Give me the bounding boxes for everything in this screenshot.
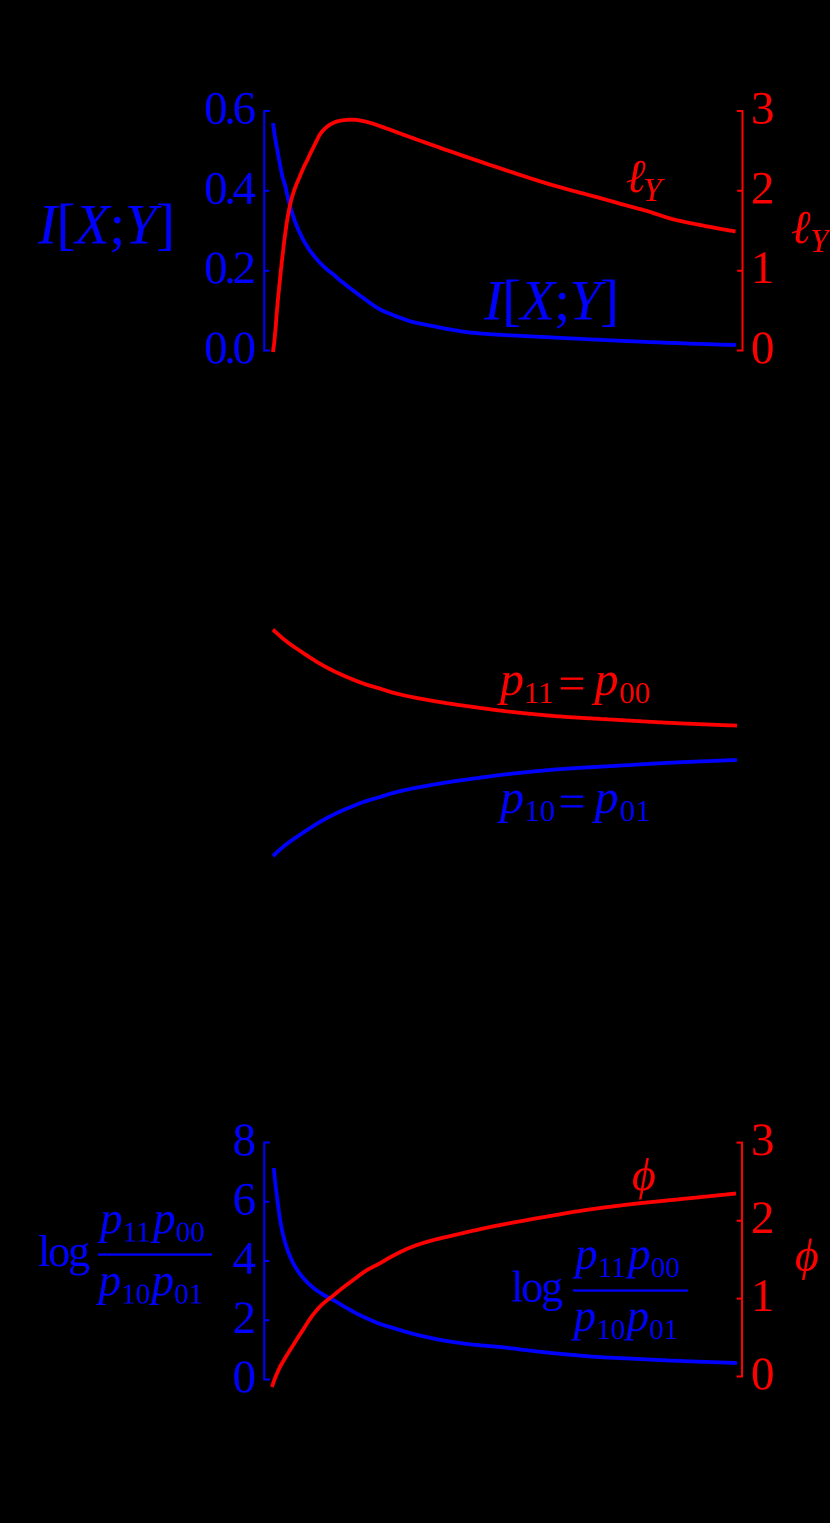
svg-text:11: 11 <box>123 1217 151 1249</box>
chart 1: right axis title l_Y <box>791 202 830 260</box>
svg-text:11: 11 <box>524 675 554 710</box>
chart 1: right y-axis bracket (red) <box>737 111 743 351</box>
svg-text:0.2: 0.2 <box>204 242 256 294</box>
chart 1: left y-axis ticks <box>264 191 269 271</box>
svg-text:Y: Y <box>810 223 830 260</box>
svg-text:01: 01 <box>620 793 651 828</box>
svg-text:ϕ: ϕ <box>795 1230 819 1281</box>
svg-text:p: p <box>97 1194 123 1244</box>
svg-text:I[X;Y]: I[X;Y] <box>483 270 619 333</box>
chart 2: blue curve label p10 = p01 <box>497 771 651 829</box>
chart 3: left y-axis bracket (blue) <box>264 1143 270 1380</box>
chart 1: in-plot label l_Y (red) <box>626 151 665 209</box>
chart 2: red curve p11=p00 <box>273 630 737 726</box>
chart 3: right y-axis bracket (red) <box>737 1143 743 1377</box>
svg-text:0: 0 <box>751 1348 775 1400</box>
svg-text:3: 3 <box>751 1114 775 1166</box>
svg-text:log: log <box>38 1227 90 1276</box>
svg-text:Y: Y <box>643 172 665 209</box>
svg-text:00: 00 <box>620 675 651 710</box>
svg-text:2: 2 <box>751 1192 775 1244</box>
svg-text:01: 01 <box>649 1314 678 1346</box>
svg-text:log: log <box>511 1263 563 1312</box>
svg-text:p: p <box>625 1229 651 1279</box>
svg-text:1: 1 <box>751 242 775 294</box>
svg-text:0.0: 0.0 <box>204 322 256 374</box>
svg-text:1: 1 <box>751 1270 775 1322</box>
chart 2: red curve label p11 = p00 <box>497 653 651 711</box>
svg-text:4: 4 <box>233 1233 257 1285</box>
svg-text:01: 01 <box>174 1279 203 1311</box>
chart 3: left y-axis ticks <box>264 1202 269 1321</box>
svg-text:p: p <box>497 771 524 824</box>
svg-text:0: 0 <box>233 1351 257 1403</box>
chart 3: right y-axis ticks <box>737 1221 742 1299</box>
svg-text:00: 00 <box>651 1252 680 1284</box>
chart 1: right y-axis ticks <box>737 191 742 271</box>
svg-text:p: p <box>150 1194 176 1244</box>
chart 3: left axis title log p11p00/p10p01 (blue fraction) <box>38 1194 212 1311</box>
svg-text:00: 00 <box>176 1217 205 1249</box>
svg-text:2: 2 <box>751 162 775 214</box>
svg-text:8: 8 <box>233 1114 257 1166</box>
svg-text:ϕ: ϕ <box>632 1149 656 1200</box>
svg-text:6: 6 <box>233 1173 257 1225</box>
chart 3: in-plot label log p11p00/p10p01 (blue fraction) <box>511 1229 688 1346</box>
svg-text:0.6: 0.6 <box>204 83 256 135</box>
svg-text:0: 0 <box>751 322 775 374</box>
svg-text:=: = <box>559 658 586 711</box>
chart 3: blue curve log odds <box>274 1168 737 1363</box>
svg-text:I[X;Y]: I[X;Y] <box>37 194 175 257</box>
svg-text:10: 10 <box>596 1314 625 1346</box>
svg-text:ℓ: ℓ <box>791 202 811 254</box>
chart 1: red curve l_Y <box>273 120 736 352</box>
svg-text:0.4: 0.4 <box>204 162 256 214</box>
chart 2: blue curve p10=p01 <box>273 760 737 856</box>
svg-text:p: p <box>96 1256 122 1306</box>
svg-text:p: p <box>624 1291 650 1341</box>
chart 1: left y-axis bracket (blue) <box>264 111 270 351</box>
svg-text:p: p <box>592 653 619 706</box>
chart 3: red curve phi <box>272 1194 736 1388</box>
svg-text:11: 11 <box>598 1252 626 1284</box>
svg-text:p: p <box>149 1256 175 1306</box>
svg-text:3: 3 <box>751 83 775 135</box>
chart 1: blue curve I[X;Y] <box>273 123 736 345</box>
svg-text:p: p <box>592 771 619 824</box>
svg-text:=: = <box>559 776 586 829</box>
svg-text:p: p <box>572 1229 598 1279</box>
svg-text:10: 10 <box>121 1279 150 1311</box>
svg-text:10: 10 <box>524 793 555 828</box>
svg-text:2: 2 <box>233 1292 257 1344</box>
svg-text:p: p <box>571 1291 597 1341</box>
svg-text:p: p <box>497 653 524 706</box>
